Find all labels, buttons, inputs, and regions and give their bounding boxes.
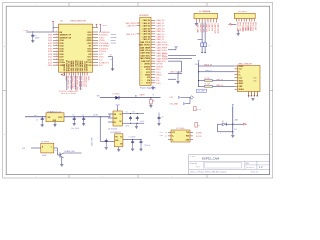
svg-text:VBUS_5V: VBUS_5V xyxy=(204,64,213,66)
svg-text:CAM_D5: CAM_D5 xyxy=(143,33,150,36)
svg-text:CAM_RST: CAM_RST xyxy=(141,60,151,63)
svg-text:U0RXD: U0RXD xyxy=(162,56,169,58)
svg-text:USB_D+: USB_D+ xyxy=(216,85,224,87)
svg-text:VIN: VIN xyxy=(114,114,117,116)
svg-text:CAM_D7: CAM_D7 xyxy=(143,38,150,41)
svg-text:CAM_VS: CAM_VS xyxy=(208,23,211,32)
svg-text:U3 AMS1117-3.3: U3 AMS1117-3.3 xyxy=(47,110,61,113)
svg-text:13: 13 xyxy=(141,53,143,55)
svg-text:IO13: IO13 xyxy=(146,72,150,74)
svg-text:D2: D2 xyxy=(222,121,224,123)
svg-text:CAM_D1: CAM_D1 xyxy=(156,22,165,25)
svg-text:GND2: GND2 xyxy=(145,75,150,77)
svg-text:CAM_D4: CAM_D4 xyxy=(156,30,165,33)
svg-text:SENSOR_VP: SENSOR_VP xyxy=(60,35,72,37)
svg-text:U0TXD: U0TXD xyxy=(196,136,203,138)
svg-text:R10: R10 xyxy=(55,150,58,152)
svg-text:RXD0: RXD0 xyxy=(86,40,91,42)
svg-text:1: 1 xyxy=(36,4,37,6)
svg-text:IO27: IO27 xyxy=(60,57,64,59)
svg-text:10uF 100nF: 10uF 100nF xyxy=(71,128,79,130)
svg-text:CAM_XCLK: CAM_XCLK xyxy=(156,49,167,52)
svg-text:J2 PROG: J2 PROG xyxy=(238,11,247,13)
svg-text:IO22: IO22 xyxy=(87,35,91,37)
svg-text:RXD0: RXD0 xyxy=(99,40,105,42)
svg-text:IO4: IO4 xyxy=(147,79,150,82)
svg-text:IO22/SCL: IO22/SCL xyxy=(99,35,109,37)
svg-text:CAM_HS: CAM_HS xyxy=(211,23,214,32)
svg-text:U0TXD: U0TXD xyxy=(156,64,163,66)
svg-text:2023-05-20: 2023-05-20 xyxy=(246,167,254,169)
svg-text:Q1 S8050: Q1 S8050 xyxy=(41,141,49,143)
svg-text:+5V_USB: +5V_USB xyxy=(169,103,178,105)
svg-text:U0TXD: U0TXD xyxy=(162,54,168,56)
svg-text:FLASH_LED: FLASH_LED xyxy=(65,150,76,153)
svg-text:17: 17 xyxy=(141,64,143,66)
svg-text:CAM_D0: CAM_D0 xyxy=(156,19,165,22)
svg-text:IO21: IO21 xyxy=(87,43,91,45)
svg-text:CAM_D6: CAM_D6 xyxy=(143,35,150,38)
svg-text:SBU2: SBU2 xyxy=(239,83,244,85)
svg-text:CAM_PCLK: CAM_PCLK xyxy=(140,41,151,44)
svg-text:USB_CC: USB_CC xyxy=(205,70,213,72)
svg-text:22: 22 xyxy=(141,77,143,79)
svg-text:U0RXD: U0RXD xyxy=(156,66,163,68)
svg-text:+VBUS: +VBUS xyxy=(139,94,146,96)
svg-text:CAM_D4: CAM_D4 xyxy=(143,30,150,33)
svg-text:IO4: IO4 xyxy=(22,148,25,150)
svg-text:EN: EN xyxy=(120,144,122,146)
svg-text:14: 14 xyxy=(141,55,143,57)
svg-text:IO32: IO32 xyxy=(60,46,64,48)
svg-text:CAM_VSYNC: CAM_VSYNC xyxy=(156,44,169,47)
svg-text:IO21/SDA: IO21/SDA xyxy=(99,42,109,45)
svg-text:U0RXD_IO3: U0RXD_IO3 xyxy=(85,76,87,88)
svg-text:R4 22R: R4 22R xyxy=(205,78,211,80)
svg-text:F1: F1 xyxy=(153,94,155,96)
svg-text:IO23: IO23 xyxy=(87,32,91,34)
svg-text:+5V_USB: +5V_USB xyxy=(197,91,204,93)
svg-text:+3.3V: +3.3V xyxy=(23,30,29,32)
svg-text:1: 1 xyxy=(172,4,173,6)
svg-text:IO18: IO18 xyxy=(87,51,91,53)
svg-text:HS2_CLK/CLK: HS2_CLK/CLK xyxy=(78,59,80,71)
svg-text:1: 1 xyxy=(240,4,241,6)
svg-text:CAM_D5: CAM_D5 xyxy=(156,33,165,36)
svg-text:HS2_CMD/SD1: HS2_CMD/SD1 xyxy=(76,60,78,71)
svg-text:U2 ESP32: U2 ESP32 xyxy=(139,15,149,17)
svg-text:GND2: GND2 xyxy=(156,75,162,77)
svg-text:J1 CAMERA: J1 CAMERA xyxy=(199,10,211,13)
svg-text:CAM_XCLK: CAM_XCLK xyxy=(216,23,219,34)
svg-text:+BAT: +BAT xyxy=(234,119,238,122)
svg-text:TXD0: TXD0 xyxy=(87,37,92,39)
svg-text:IO5: IO5 xyxy=(88,54,91,56)
svg-text:IO19: IO19 xyxy=(87,48,91,50)
svg-text:GND: GND xyxy=(48,65,53,67)
svg-text:+3.3V: +3.3V xyxy=(174,46,180,48)
svg-text:D+: D+ xyxy=(165,136,167,138)
svg-text:100nF: 100nF xyxy=(125,126,129,128)
svg-text:IO17: IO17 xyxy=(87,57,91,59)
svg-text:16: 16 xyxy=(141,61,143,63)
svg-text:CAM_D1: CAM_D1 xyxy=(143,22,150,25)
svg-text:S8050: S8050 xyxy=(42,155,47,157)
svg-text:CAM_HREF: CAM_HREF xyxy=(156,46,168,49)
svg-text:EN: EN xyxy=(114,122,116,124)
svg-text:R8: R8 xyxy=(198,125,200,127)
svg-text:Phil.S: Phil.S xyxy=(196,167,200,169)
svg-text:IO12: IO12 xyxy=(146,69,150,71)
svg-text:CAM_GND: CAM_GND xyxy=(196,23,199,33)
svg-text:19: 19 xyxy=(141,69,143,71)
svg-text:Y1: Y1 xyxy=(208,45,210,47)
svg-text:CAM_D3: CAM_D3 xyxy=(156,27,165,30)
svg-text:CC2: CC2 xyxy=(239,77,242,79)
svg-text:U0RXD: U0RXD xyxy=(144,66,151,68)
svg-text:UART_RXD: UART_RXD xyxy=(170,71,180,74)
svg-text:C9: C9 xyxy=(162,116,164,118)
svg-text:R5 22R: R5 22R xyxy=(205,84,211,86)
svg-text:B: B xyxy=(271,134,272,136)
svg-text:GND: GND xyxy=(87,76,89,81)
svg-text:CAM_PWDN: CAM_PWDN xyxy=(125,22,136,25)
svg-text:MTDI/HS2_D2: MTDI/HS2_D2 xyxy=(69,61,71,71)
svg-text:TITLE:: TITLE: xyxy=(190,156,195,158)
svg-text:D+: D+ xyxy=(172,136,174,138)
svg-text:20: 20 xyxy=(141,72,143,74)
svg-text:24: 24 xyxy=(141,83,143,85)
svg-text:CAM_D6: CAM_D6 xyxy=(156,36,165,39)
svg-text:CAM_RST: CAM_RST xyxy=(156,60,166,63)
svg-text:MTDI MTCK MTMS: MTDI MTCK MTMS xyxy=(61,93,77,95)
svg-text:15: 15 xyxy=(141,58,143,60)
svg-text:IO33: IO33 xyxy=(60,48,64,50)
svg-text:C10: C10 xyxy=(234,129,237,131)
svg-text:USB_D-: USB_D- xyxy=(216,79,223,81)
svg-text:1: 1 xyxy=(36,177,37,179)
svg-text:23: 23 xyxy=(141,80,143,82)
svg-text:Sheet_1 of Project: ESP32_CAM_: Sheet_1 of Project: ESP32_CAM_MB / easye… xyxy=(190,171,226,174)
svg-text:IO19/MISO: IO19/MISO xyxy=(99,46,110,48)
svg-text:B: B xyxy=(4,134,5,136)
svg-text:Power Supply 5V: Power Supply 5V xyxy=(140,86,157,89)
svg-text:R1: R1 xyxy=(110,55,112,57)
svg-text:C3: C3 xyxy=(72,115,74,117)
svg-text:U7 CH340: U7 CH340 xyxy=(176,128,184,130)
svg-text:CAM_RST: CAM_RST xyxy=(127,25,136,28)
svg-text:TXD2: TXD2 xyxy=(244,27,246,32)
svg-text:SHELL: SHELL xyxy=(239,89,245,91)
svg-text:IO15: IO15 xyxy=(146,83,150,85)
svg-text:ESP32_CAM: ESP32_CAM xyxy=(202,156,220,160)
svg-text:21: 21 xyxy=(141,75,143,77)
svg-text:CAM_D3: CAM_D3 xyxy=(143,27,150,30)
svg-text:R9 2K: R9 2K xyxy=(197,109,201,111)
svg-text:3V32: 3V32 xyxy=(249,27,251,31)
svg-text:+3.3V: +3.3V xyxy=(93,115,99,117)
svg-text:U0TXD_IO1: U0TXD_IO1 xyxy=(82,76,84,88)
svg-text:1: 1 xyxy=(103,4,104,6)
svg-text:U0RXD: U0RXD xyxy=(196,132,203,134)
svg-text:IO18/SCK: IO18/SCK xyxy=(99,48,109,50)
svg-text:C6: C6 xyxy=(132,112,134,114)
svg-text:1: 1 xyxy=(172,177,173,179)
svg-text:IO0: IO0 xyxy=(88,65,91,67)
svg-text:CAM_PWR: CAM_PWR xyxy=(91,137,94,146)
svg-text:IO23/MOSI: IO23/MOSI xyxy=(99,32,110,34)
svg-text:MTDO/HS2_D0: MTDO/HS2_D0 xyxy=(67,60,69,71)
svg-text:ESP32-WROOM: ESP32-WROOM xyxy=(71,20,86,22)
svg-text:IO26: IO26 xyxy=(60,54,64,56)
svg-text:U5 XC6206: U5 XC6206 xyxy=(108,128,117,130)
svg-text:100nF: 100nF xyxy=(35,37,40,39)
svg-text:C5: C5 xyxy=(126,112,128,114)
svg-text:TXD0: TXD0 xyxy=(99,37,105,39)
svg-text:C7 100nF: C7 100nF xyxy=(129,137,136,139)
svg-text:CAM_D0: CAM_D0 xyxy=(143,19,150,22)
svg-text:1.0: 1.0 xyxy=(259,165,263,169)
svg-text:18: 18 xyxy=(141,66,143,68)
svg-text:GND: GND xyxy=(64,76,66,81)
svg-text:SENSOR_VN: SENSOR_VN xyxy=(60,37,72,39)
svg-text:U6 SGM2212: U6 SGM2212 xyxy=(111,132,121,134)
svg-text:CAM_D2: CAM_D2 xyxy=(143,25,150,28)
svg-text:CC1: CC1 xyxy=(239,69,242,71)
svg-text:CAM_XCLK: CAM_XCLK xyxy=(126,33,136,36)
svg-text:1: 1 xyxy=(240,177,241,179)
svg-text:1: 1 xyxy=(103,177,104,179)
svg-text:VIN: VIN xyxy=(115,136,118,138)
svg-text:CAM_D2: CAM_D2 xyxy=(156,25,165,28)
svg-text:12: 12 xyxy=(141,50,143,52)
svg-text:PRG_NC: PRG_NC xyxy=(254,22,256,31)
svg-text:100nF: 100nF xyxy=(140,121,144,123)
svg-text:SBU1: SBU1 xyxy=(239,80,244,82)
svg-text:CAM_PCLK: CAM_PCLK xyxy=(214,23,217,34)
svg-text:D+: D+ xyxy=(239,75,241,77)
svg-text:CAM_VCC: CAM_VCC xyxy=(199,23,202,33)
svg-text:11: 11 xyxy=(141,47,143,49)
svg-text:IO35: IO35 xyxy=(60,43,64,45)
svg-text:PRG_GND: PRG_GND xyxy=(236,22,238,32)
svg-text:D1 SS34: D1 SS34 xyxy=(113,93,120,95)
svg-text:RXD2: RXD2 xyxy=(246,27,248,32)
svg-text:VOUT: VOUT xyxy=(58,117,62,119)
svg-text:IO5/CS: IO5/CS xyxy=(99,51,106,53)
svg-text:C4: C4 xyxy=(82,115,84,117)
svg-text:GND2: GND2 xyxy=(241,27,243,32)
svg-text:U0TXD/CLK3: U0TXD/CLK3 xyxy=(85,61,87,71)
svg-text:U0TXD: U0TXD xyxy=(144,64,151,66)
svg-text:IO12: IO12 xyxy=(60,62,64,64)
svg-text:10: 10 xyxy=(141,45,143,47)
svg-text:C2: C2 xyxy=(36,120,38,122)
svg-text:GND: GND xyxy=(60,65,65,67)
svg-text:IO16: IO16 xyxy=(87,59,91,61)
svg-text:IO2: IO2 xyxy=(147,77,150,79)
svg-text:IO0/BOOT: IO0/BOOT xyxy=(99,62,110,64)
svg-text:CAM_D7: CAM_D7 xyxy=(156,38,165,41)
svg-text:SD_CLK_SCK: SD_CLK_SCK xyxy=(69,76,71,90)
svg-text:C8 10uF: C8 10uF xyxy=(144,145,150,147)
svg-text:PRG_TXD: PRG_TXD xyxy=(239,22,241,32)
svg-text:IO25: IO25 xyxy=(60,51,64,53)
svg-text:CAM_PCLK: CAM_PCLK xyxy=(156,41,167,44)
